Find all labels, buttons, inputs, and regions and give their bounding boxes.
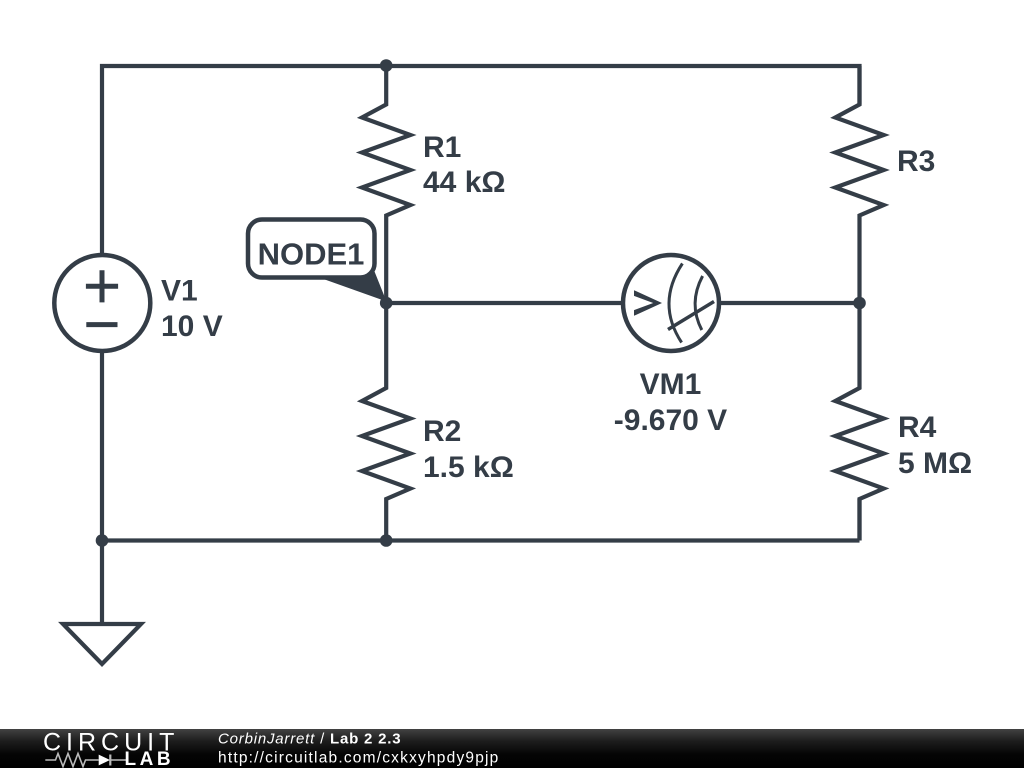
svg-text:R2: R2	[423, 415, 461, 448]
node dot top	[380, 59, 393, 72]
node dot NODE1	[380, 297, 393, 310]
wire middle: NODE1 to voltmeter to right rail	[386, 301, 859, 305]
svg-text:NODE1: NODE1	[258, 237, 365, 272]
ground	[63, 624, 141, 664]
svg-text:-9.670 V: -9.670 V	[614, 404, 727, 437]
wire bottom rail: V1 bottom to ground/R2/R4	[102, 350, 860, 624]
voltmeter VM1	[623, 255, 719, 351]
node dot bottom left	[96, 534, 109, 547]
wire top rail: V1 top to R1 node to R3 top	[102, 66, 860, 256]
svg-text:5 MΩ: 5 MΩ	[898, 447, 972, 480]
node dot right mid	[853, 297, 866, 310]
svg-text:R4: R4	[898, 411, 937, 444]
resistor R3	[835, 66, 883, 303]
logo resistor-diode doodle	[45, 754, 127, 767]
svg-text:R3: R3	[897, 145, 935, 178]
svg-text:http://circuitlab.com/cxkxyhpd: http://circuitlab.com/cxkxyhpdy9pjp	[218, 750, 500, 767]
svg-text:44 kΩ: 44 kΩ	[423, 166, 505, 199]
svg-text:CorbinJarrett / Lab 2 2.3: CorbinJarrett / Lab 2 2.3	[218, 731, 401, 748]
footer bar	[0, 729, 1024, 768]
node dot bottom mid	[380, 534, 393, 547]
voltage source V1	[54, 255, 150, 351]
svg-text:10 V: 10 V	[161, 310, 223, 343]
svg-text:LAB: LAB	[125, 749, 175, 768]
resistor R2	[362, 303, 410, 541]
svg-text:V1: V1	[161, 275, 198, 308]
node label NODE1 balloon	[248, 220, 387, 302]
resistor R4	[835, 303, 883, 541]
svg-text:1.5 kΩ: 1.5 kΩ	[423, 451, 514, 484]
resistor R1	[362, 66, 410, 304]
svg-text:VM1: VM1	[640, 368, 702, 401]
svg-text:R1: R1	[423, 131, 461, 164]
